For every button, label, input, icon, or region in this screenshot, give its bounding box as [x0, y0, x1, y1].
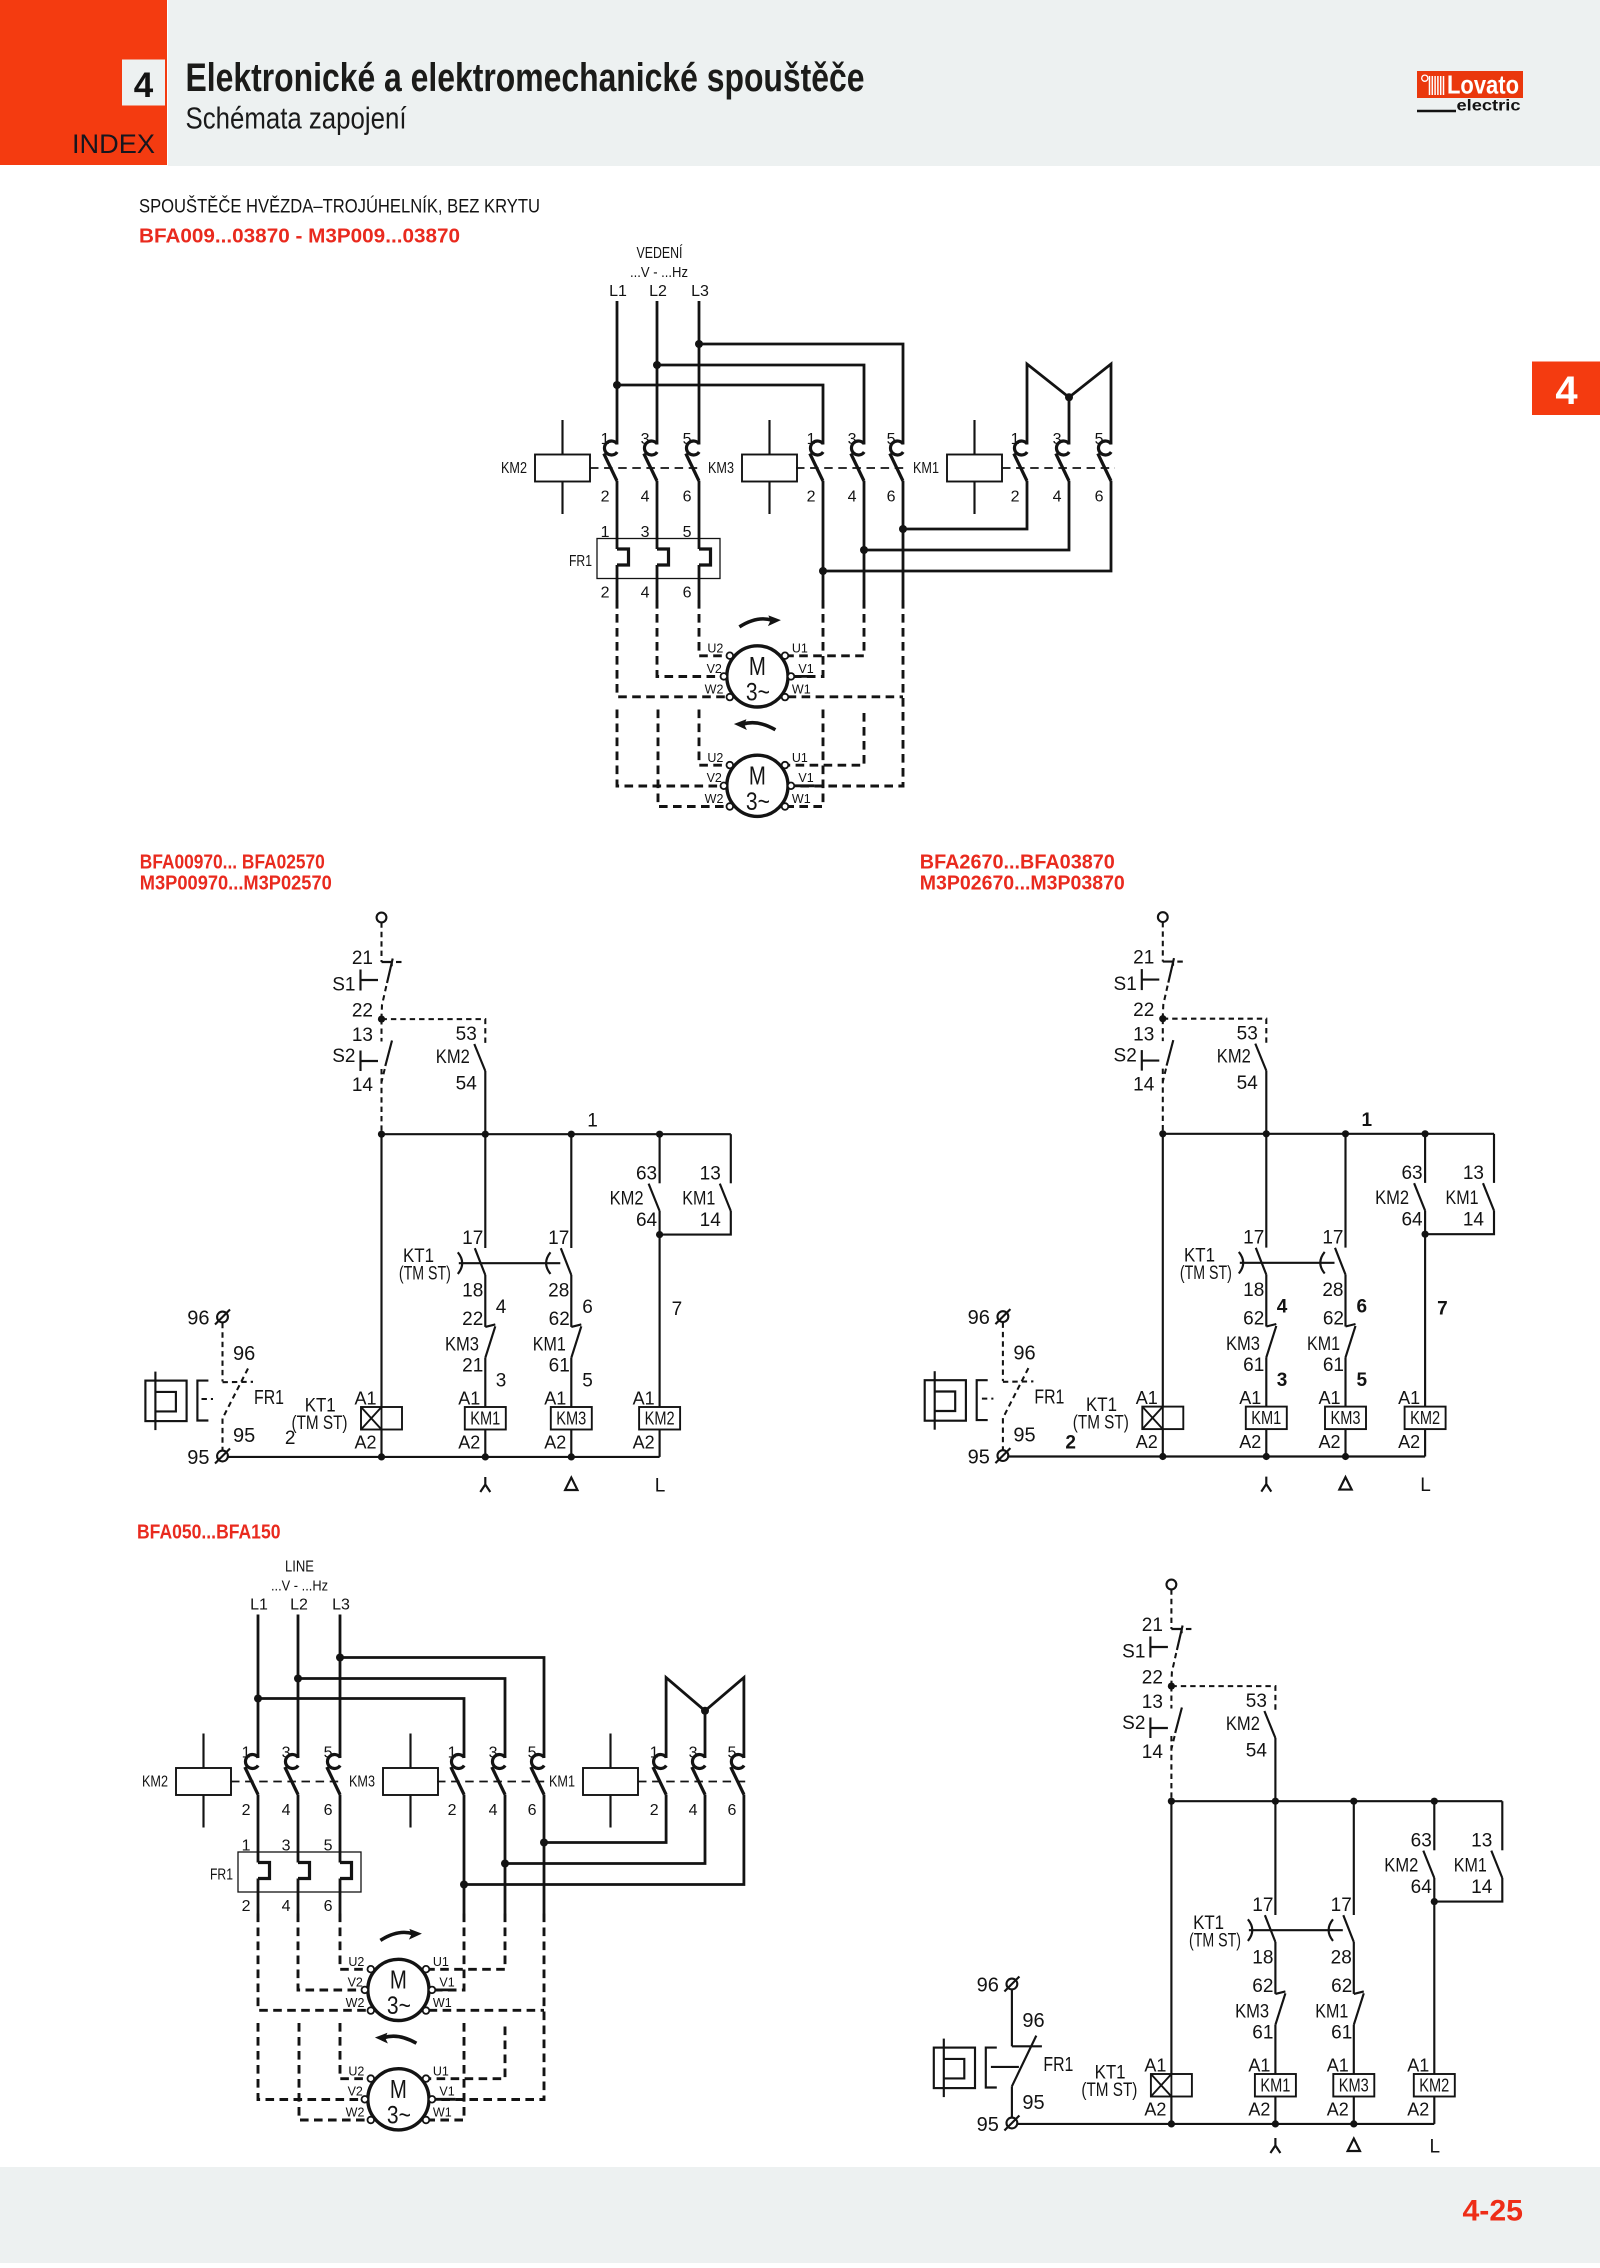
coil KM1: [465, 1407, 506, 1430]
svg-text:96: 96: [1013, 1343, 1035, 1365]
footer band: [0, 2167, 1600, 2263]
KM3 pole 3-4: [851, 441, 864, 455]
wire KM3 pole2 drop: [463, 1795, 466, 1914]
wire to KM2 53: [382, 1019, 486, 1043]
svg-text:5: 5: [727, 1745, 736, 1762]
top bus: [1163, 1133, 1494, 1135]
svg-text:95: 95: [968, 1447, 990, 1469]
svg-text:63: 63: [636, 1164, 657, 1185]
KM3 linkage: [796, 467, 907, 469]
wire KT1 coil branch: [1170, 1801, 1172, 2074]
svg-text:62: 62: [1323, 1309, 1344, 1330]
thermal relay FR1 box: [238, 1852, 361, 1892]
FR1 heater 5-6: [698, 481, 701, 549]
svg-text:KM1: KM1: [533, 1335, 566, 1356]
FR1 heater 5-6: [339, 1795, 342, 1863]
wire motor1 W1 tap: [788, 695, 903, 698]
svg-text:6: 6: [683, 585, 692, 602]
KM2 pole 3-4: [285, 1755, 298, 1769]
wire KM3 A2: [1344, 1429, 1346, 1456]
svg-text:96: 96: [187, 1308, 209, 1330]
wire KM3-2 to motor1 V1: [794, 600, 823, 677]
svg-text:A1: A1: [1136, 1388, 1158, 1408]
svg-text:63: 63: [1401, 1163, 1422, 1184]
pushbutton S1 (NC): [382, 962, 392, 966]
contact KM1 62-61: [1353, 1942, 1355, 1994]
svg-text:5: 5: [582, 1371, 593, 1392]
svg-text:5: 5: [324, 1838, 333, 1855]
svg-text:A2: A2: [1239, 1432, 1261, 1452]
svg-text:L1: L1: [609, 283, 627, 300]
svg-text:U2: U2: [707, 751, 723, 765]
svg-text:61: 61: [1331, 2023, 1352, 2044]
svg-text:28: 28: [1322, 1280, 1343, 1301]
wire S2 to bus: [380, 1069, 382, 1134]
svg-text:96: 96: [233, 1343, 255, 1365]
svg-text:2: 2: [650, 1802, 659, 1819]
svg-text:S2: S2: [1114, 1046, 1137, 1067]
svg-text:(TM ST): (TM ST): [1189, 1931, 1241, 1952]
node bus left: [1168, 1798, 1175, 1805]
contactor KM1 coil: [947, 455, 1002, 482]
wire KT1 A2: [1170, 2097, 1172, 2124]
contactor KM2 coil: [176, 1768, 231, 1795]
wire FR1-4 to motor1 V2: [298, 1914, 362, 1991]
svg-text:KM1: KM1: [1260, 2075, 1290, 2096]
svg-text:1: 1: [601, 524, 610, 541]
svg-text:2: 2: [1065, 1433, 1076, 1454]
svg-text:VEDENÍ: VEDENÍ: [637, 243, 683, 262]
wire KM3 pole6 drop: [902, 481, 905, 600]
KM2 pole 1-2: [604, 441, 617, 455]
phase labels: [480, 1477, 490, 1492]
KM3 pole 5-6: [890, 441, 903, 455]
svg-text:22: 22: [462, 1309, 483, 1330]
svg-text:KM2: KM2: [1217, 1047, 1251, 1068]
KM2 pole 5-6: [327, 1755, 340, 1769]
svg-text:KM3: KM3: [1226, 1334, 1260, 1355]
wire S2 to bus: [1162, 1069, 1164, 1134]
svg-text:17: 17: [1243, 1228, 1264, 1249]
header red block: [0, 0, 167, 165]
svg-text:(TM ST): (TM ST): [292, 1413, 348, 1434]
node KM3-6 / KM1-2: [540, 1839, 548, 1847]
svg-text:W2: W2: [346, 2106, 365, 2120]
rotation arrow: [742, 723, 775, 730]
pushbutton S2 (NO): [1170, 1686, 1172, 1708]
svg-text:U1: U1: [433, 1955, 449, 1969]
contact KM1 13-14: [1491, 1851, 1502, 1878]
rotation arrow: [380, 1932, 413, 1940]
svg-text:3~: 3~: [746, 788, 770, 816]
node star bridge: [701, 1707, 709, 1715]
svg-text:A2: A2: [1398, 1432, 1420, 1452]
timer coil KT1: [361, 1407, 402, 1430]
contactor KM1 coil: [583, 1768, 638, 1795]
wire KM1 A2: [1274, 2097, 1276, 2124]
node bus C: [568, 1131, 575, 1138]
svg-text:2: 2: [601, 489, 610, 506]
svg-text:U1: U1: [433, 2065, 449, 2079]
svg-text:KM2: KM2: [1419, 2075, 1449, 2096]
svg-text:KM1: KM1: [1307, 1334, 1340, 1355]
svg-text:S1: S1: [1122, 1642, 1145, 1663]
svg-text:4: 4: [641, 489, 650, 506]
contactor KM3 coil: [742, 455, 797, 482]
svg-text:14: 14: [1463, 1210, 1485, 1231]
FR1 heater 3-4: [297, 1795, 300, 1863]
svg-text:61: 61: [549, 1356, 570, 1377]
KM2 pole 1-2: [245, 1755, 258, 1769]
svg-text:A2: A2: [544, 1433, 566, 1453]
coil KM2: [1405, 1407, 1446, 1430]
pushbutton S1 (NC): [1163, 962, 1173, 966]
svg-text:18: 18: [462, 1281, 483, 1302]
contact KM2 53-54: [1255, 1044, 1266, 1071]
node bus C: [1350, 1798, 1357, 1805]
svg-text:A2: A2: [458, 1433, 480, 1453]
wire supply drop: [1162, 922, 1164, 962]
svg-text:KM3: KM3: [349, 1774, 375, 1791]
svg-text:1: 1: [650, 1745, 659, 1762]
FR1 heater 1-2: [616, 481, 619, 549]
wire KM1 coil branch: [1274, 2025, 1276, 2074]
contact FR1 95-96: [221, 1323, 223, 1382]
svg-text:A2: A2: [1407, 2100, 1429, 2120]
svg-text:4: 4: [641, 585, 650, 602]
wire KM1 pole4 to node: [864, 481, 1069, 550]
svg-text:1: 1: [601, 431, 610, 448]
wire KM2 A2: [1433, 2097, 1435, 2124]
svg-text:L: L: [1430, 2137, 1441, 2158]
wire L1 to KM3 pole 1: [258, 1699, 464, 1759]
svg-text:3: 3: [641, 524, 650, 541]
svg-text:(TM ST): (TM ST): [1081, 2080, 1137, 2101]
svg-text:4: 4: [1555, 369, 1578, 413]
svg-text:V1: V1: [439, 1975, 454, 1989]
motor M 3~ (reverse): [368, 2069, 429, 2130]
wire KM3-4 to motor1 U1: [429, 1914, 505, 1970]
KM2 pole 5-6: [686, 441, 699, 455]
FR1 actuator bracket: [986, 2048, 997, 2088]
svg-text:KM1: KM1: [549, 1774, 575, 1791]
svg-text:L1: L1: [250, 1597, 268, 1614]
svg-text:28: 28: [1331, 1948, 1352, 1969]
svg-text:L2: L2: [649, 283, 667, 300]
svg-text:A1: A1: [1144, 2056, 1166, 2076]
phase labels: [1261, 1477, 1271, 1492]
contact KM2 53-54: [1264, 1711, 1275, 1738]
svg-text:3: 3: [282, 1838, 291, 1855]
svg-text:A1: A1: [633, 1389, 655, 1409]
svg-text:4: 4: [1277, 1297, 1288, 1318]
svg-text:KM3: KM3: [1339, 2075, 1369, 2096]
svg-text:A1: A1: [1327, 2056, 1349, 2076]
timer actuator linkage: [459, 1262, 561, 1264]
wire supply drop: [380, 922, 382, 962]
svg-text:V2: V2: [707, 771, 722, 785]
svg-text:95: 95: [187, 1447, 209, 1469]
coil KM2: [639, 1407, 680, 1430]
wire tap KM3-4 to motor2 U1: [788, 713, 864, 765]
svg-text:V2: V2: [707, 662, 722, 676]
wire bus corner to KM1 13: [730, 1134, 732, 1183]
svg-text:KM3: KM3: [1331, 1407, 1361, 1428]
svg-text:M: M: [749, 761, 766, 791]
contactor KM3 coil: [383, 1768, 438, 1795]
timer coil KT1: [1142, 1407, 1183, 1430]
svg-text:KM2: KM2: [610, 1189, 644, 1210]
svg-text:3: 3: [848, 431, 857, 448]
svg-text:S2: S2: [332, 1046, 355, 1067]
svg-text:5: 5: [887, 431, 896, 448]
contact KM2 63-64: [1424, 1134, 1426, 1183]
svg-text:KM1: KM1: [1446, 1188, 1479, 1209]
svg-text:A2: A2: [1327, 2100, 1349, 2120]
svg-text:96: 96: [1022, 2010, 1044, 2032]
svg-text:3~: 3~: [746, 679, 770, 707]
svg-text:7: 7: [1437, 1299, 1448, 1320]
svg-text:A1: A1: [1248, 2056, 1270, 2076]
wire L2 to KM3 pole 3: [657, 365, 864, 445]
svg-text:63: 63: [1411, 1831, 1432, 1852]
timer contact KT1 17-18: [1274, 1801, 1276, 1915]
bottom bus: [1018, 2123, 1434, 2125]
pushbutton S2 (NO): [1162, 1019, 1164, 1041]
svg-text:17: 17: [1331, 1895, 1352, 1916]
svg-text:21: 21: [1142, 1615, 1163, 1636]
svg-text:5: 5: [528, 1745, 537, 1762]
svg-text:(TM ST): (TM ST): [399, 1264, 451, 1285]
svg-text:54: 54: [1246, 1741, 1268, 1762]
svg-text:53: 53: [1246, 1691, 1267, 1712]
svg-text:21: 21: [352, 948, 373, 969]
svg-text:S1: S1: [332, 975, 355, 996]
svg-text:14: 14: [1471, 1877, 1493, 1898]
svg-text:13: 13: [1142, 1692, 1163, 1713]
svg-text:6: 6: [1357, 1297, 1368, 1318]
KM1 pole 1-2: [1014, 441, 1027, 455]
svg-text:KM1: KM1: [1251, 1407, 1281, 1428]
contact FR1 95-96: [1002, 1323, 1004, 1382]
svg-text:22: 22: [352, 1001, 373, 1022]
svg-text:53: 53: [1237, 1024, 1258, 1045]
svg-text:4-25: 4-25: [1463, 2195, 1524, 2228]
wire V1 stub: [794, 675, 815, 678]
header band: [168, 0, 1600, 166]
motor M 3~: [727, 646, 788, 707]
wire supply drop: [1170, 1589, 1172, 1629]
svg-text:A2: A2: [1144, 2100, 1166, 2120]
svg-text:A1: A1: [458, 1389, 480, 1409]
svg-text:4: 4: [282, 1898, 291, 1915]
svg-text:(TM ST): (TM ST): [1073, 1413, 1129, 1434]
terminal 95: [217, 1451, 228, 1462]
terminal 96: [1007, 1979, 1018, 1990]
node KM3-2 / KM1-6: [460, 1881, 468, 1889]
node S1-S2: [1170, 1685, 1172, 1687]
wire V1 stub: [435, 1989, 456, 1992]
FR1 trip device: [145, 1381, 186, 1422]
svg-text:5: 5: [683, 431, 692, 448]
FR1 actuator bracket: [977, 1380, 988, 1420]
svg-text:6: 6: [582, 1297, 593, 1318]
svg-text:18: 18: [1252, 1948, 1273, 1969]
svg-text:FR1: FR1: [569, 553, 592, 570]
contact KM1 62-61: [570, 1275, 572, 1327]
wire FR1-2 to motor1 W2: [617, 600, 727, 697]
wire KM3-6 to motor2 V1: [435, 1914, 544, 2100]
svg-text:...V - ...Hz: ...V - ...Hz: [630, 264, 688, 281]
svg-text:4: 4: [1053, 489, 1062, 506]
wire tap 4 to motor2 W2: [658, 710, 727, 807]
svg-text:61: 61: [1323, 1355, 1344, 1376]
svg-text:KM1: KM1: [913, 460, 939, 477]
svg-text:V2: V2: [348, 2085, 363, 2099]
pushbutton S1 (NC): [1171, 1629, 1181, 1633]
wire KM2 coil branch: [1424, 1234, 1426, 1406]
svg-text:4: 4: [489, 1802, 498, 1819]
wire KM1 pole2 to node: [903, 481, 1027, 529]
svg-text:3: 3: [641, 431, 650, 448]
node star bridge: [1065, 393, 1073, 401]
svg-text:2: 2: [807, 489, 816, 506]
KM1 pole 5-6: [1098, 441, 1111, 455]
svg-text:U2: U2: [348, 2065, 364, 2079]
wire FR1-4 to motor1 V2: [657, 600, 721, 677]
svg-text:BFA2670...BFA03870: BFA2670...BFA03870: [920, 852, 1115, 874]
svg-text:5: 5: [1357, 1370, 1368, 1391]
contact KM1 13-14: [1483, 1183, 1494, 1210]
contact KM2 53-54: [474, 1044, 485, 1071]
coil KM3: [1325, 1407, 1366, 1430]
wire tap KM3-4 to motor2 U1: [429, 2027, 505, 2079]
wire KM2 A2: [1424, 1429, 1426, 1456]
wire KM3 pole4 drop: [504, 1795, 507, 1914]
wire KM3 coil branch: [570, 1358, 572, 1407]
svg-text:14: 14: [1133, 1075, 1155, 1096]
svg-text:28: 28: [548, 1281, 569, 1302]
wire bus corner to KM1 13: [1493, 1134, 1495, 1183]
svg-text:14: 14: [352, 1075, 374, 1096]
svg-text:95: 95: [977, 2114, 999, 2136]
svg-text:1: 1: [1362, 1110, 1373, 1131]
svg-text:A2: A2: [633, 1433, 655, 1453]
node 64: [656, 1231, 663, 1238]
wire to KM2 53: [1171, 1686, 1275, 1710]
svg-text:1: 1: [242, 1745, 251, 1762]
svg-text:FR1: FR1: [1043, 2054, 1073, 2076]
KM1 linkage: [638, 1781, 748, 1783]
svg-text:64: 64: [1401, 1210, 1423, 1231]
wire KM2 coil branch: [659, 1235, 661, 1407]
KM2 linkage: [590, 467, 700, 469]
wire KT1 A2: [1162, 1429, 1164, 1456]
svg-text:M3P00970...M3P02570: M3P00970...M3P02570: [140, 872, 332, 894]
svg-text:6: 6: [324, 1898, 333, 1915]
svg-text:3~: 3~: [387, 1992, 411, 2020]
wire FR1-6 to motor1 U2: [699, 600, 727, 656]
Lovato logo: [1417, 71, 1523, 98]
wire tap 4 to motor2 W2: [299, 2023, 368, 2120]
svg-text:6: 6: [887, 489, 896, 506]
wire to KM2 53: [1163, 1019, 1267, 1043]
coil KM2: [1414, 2074, 1455, 2097]
svg-text:KM3: KM3: [708, 460, 734, 477]
rotation arrow: [383, 2036, 416, 2043]
svg-text:13: 13: [1471, 1831, 1492, 1852]
svg-text:W2: W2: [705, 683, 724, 697]
wire L1 drop: [616, 301, 619, 445]
wire KM1 pole2 to node: [544, 1795, 666, 1843]
contactor KM2 coil: [535, 455, 590, 482]
svg-text:KM3: KM3: [1235, 2002, 1269, 2023]
svg-text:KM2: KM2: [501, 460, 527, 477]
wire KM3 coil branch: [1353, 2025, 1355, 2074]
wire KM1 pole6 to node: [464, 1795, 744, 1885]
wire V1 stub: [435, 2098, 456, 2101]
svg-text:22: 22: [1133, 1000, 1154, 1021]
node L3 tap: [695, 340, 703, 348]
svg-text:KM3: KM3: [556, 1408, 586, 1429]
wire tap KM3-2 to motor2 W1: [788, 710, 823, 807]
KM3 pole 1-2: [810, 441, 823, 455]
svg-text:KM1: KM1: [1315, 2002, 1348, 2023]
svg-text:95: 95: [233, 1425, 255, 1447]
KM3 pole 5-6: [531, 1755, 544, 1769]
svg-text:6: 6: [1095, 489, 1104, 506]
svg-text:6: 6: [727, 1802, 736, 1819]
svg-text:KM2: KM2: [645, 1408, 675, 1429]
wire KM1 A2: [1265, 1429, 1267, 1456]
svg-text:A2: A2: [354, 1433, 376, 1453]
contact KM1 13-14: [720, 1184, 731, 1211]
timer contact KT1 17-18: [1265, 1134, 1267, 1248]
svg-text:13: 13: [700, 1164, 721, 1185]
contact KM2 63-64: [1433, 1801, 1435, 1850]
svg-text:Schémata zapojení: Schémata zapojení: [186, 101, 407, 136]
svg-text:4: 4: [496, 1297, 507, 1318]
rotation arrow: [739, 619, 772, 627]
wire bridge to pole3: [704, 1711, 707, 1758]
svg-text:2: 2: [242, 1898, 251, 1915]
thermal relay FR1 box: [597, 539, 720, 579]
wire KT1 coil branch: [380, 1134, 382, 1407]
svg-text:95: 95: [1013, 1425, 1035, 1447]
coil KM1: [1255, 2074, 1296, 2097]
wire L2 drop: [656, 301, 659, 445]
wire KM1 pole1 riser: [1027, 364, 1069, 445]
svg-text:M: M: [749, 651, 766, 681]
svg-text:7: 7: [672, 1299, 683, 1320]
wire KM2 coil branch: [1433, 1902, 1435, 2074]
svg-text:13: 13: [1463, 1163, 1484, 1184]
svg-text:U1: U1: [792, 751, 808, 765]
svg-text:4: 4: [282, 1802, 291, 1819]
svg-text:22: 22: [1142, 1668, 1163, 1689]
svg-text:3: 3: [689, 1745, 698, 1762]
svg-text:64: 64: [1411, 1877, 1433, 1898]
svg-text:BFA00970... BFA02570: BFA00970... BFA02570: [140, 852, 325, 874]
svg-text:A2: A2: [1136, 1432, 1158, 1452]
pushbutton S2 (NO): [380, 1019, 382, 1041]
wire L3 to KM3 pole 5: [699, 344, 903, 445]
coil KM3: [1333, 2074, 1374, 2097]
wire L1 drop: [257, 1615, 260, 1759]
svg-text:5: 5: [1095, 431, 1104, 448]
wire KM3 A2: [570, 1430, 572, 1457]
node bus B: [482, 1131, 489, 1138]
